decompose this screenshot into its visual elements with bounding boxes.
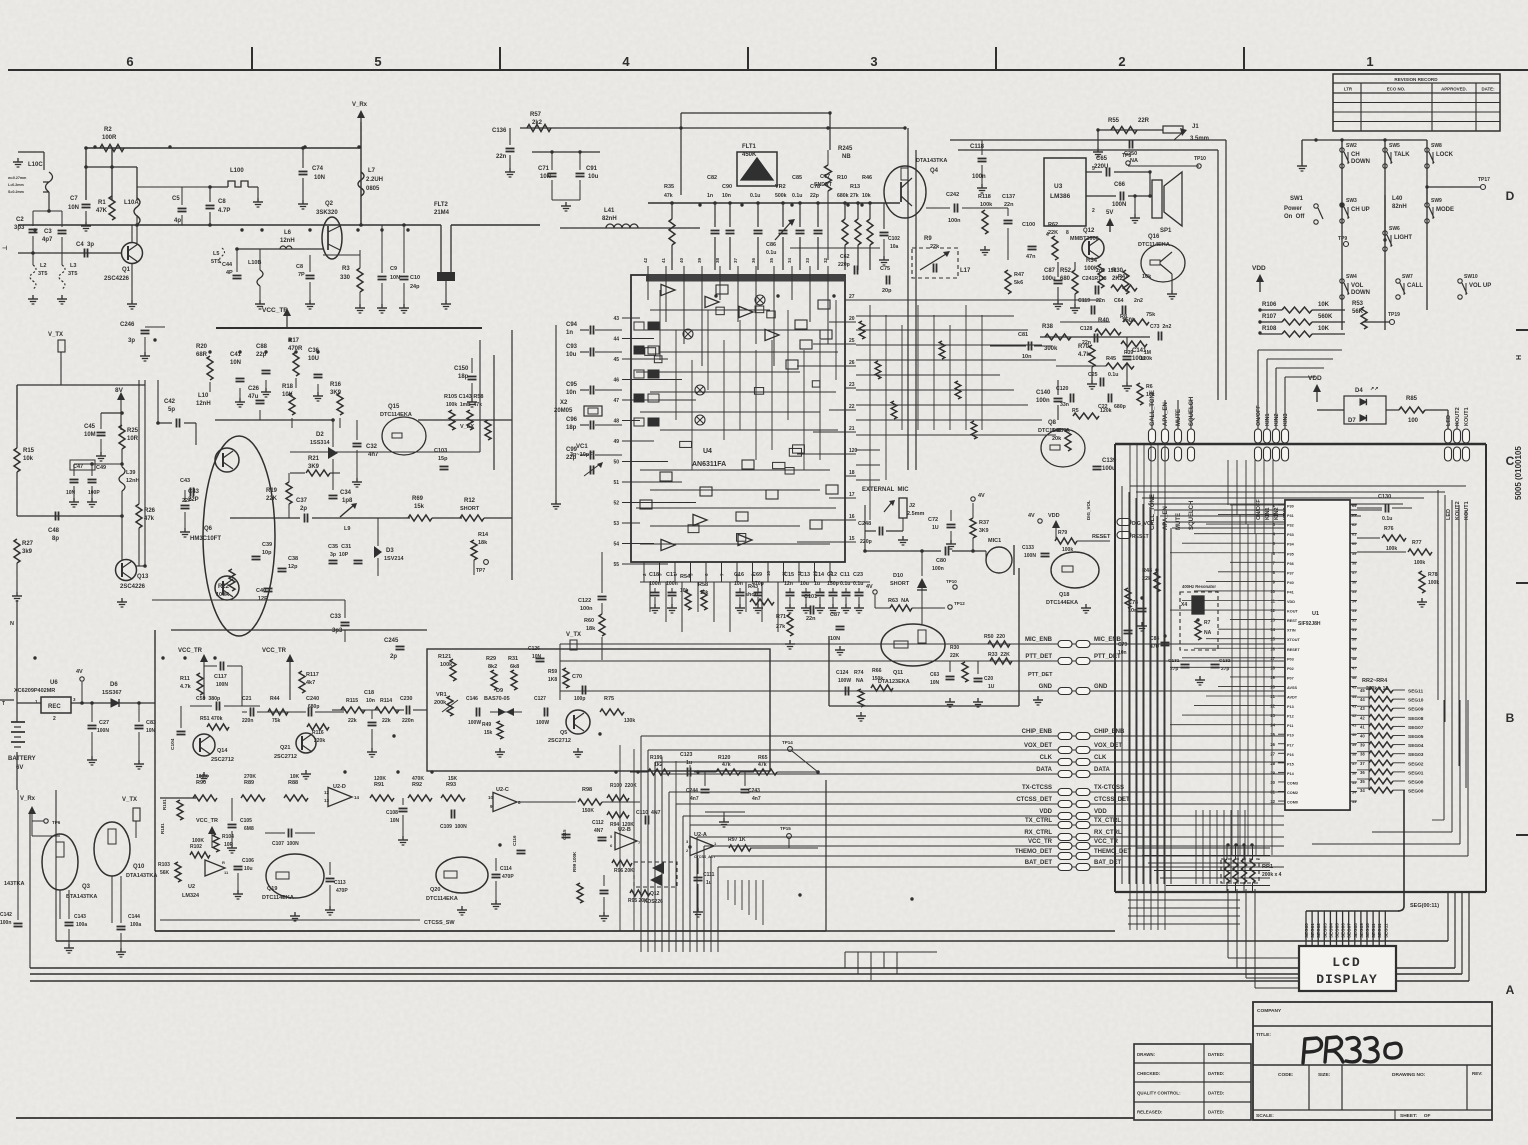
svg-text:100W: 100W <box>838 678 851 684</box>
svg-text:MIC_ENB: MIC_ENB <box>1025 637 1053 643</box>
svg-text:50: 50 <box>613 460 619 466</box>
svg-text:R54: R54 <box>680 574 691 580</box>
svg-text:R120: R120 <box>718 755 731 761</box>
svg-text:470P: 470P <box>336 888 348 894</box>
svg-text:12nH: 12nH <box>280 238 295 244</box>
svg-text:R78: R78 <box>1428 572 1438 578</box>
svg-text:TX-CTCSS: TX-CTCSS <box>1094 785 1124 791</box>
svg-text:C70: C70 <box>572 674 582 680</box>
svg-text:P16: P16 <box>1287 753 1294 757</box>
svg-text:VDD: VDD <box>1094 809 1107 815</box>
svg-text:Q3: Q3 <box>82 884 91 890</box>
svg-text:COM0: COM0 <box>1287 801 1298 805</box>
svg-text:42: 42 <box>643 257 648 263</box>
svg-text:C106: C106 <box>242 858 254 864</box>
svg-text:R3: R3 <box>342 266 350 272</box>
svg-text:R2: R2 <box>104 127 112 133</box>
svg-text:R98: R98 <box>582 787 592 793</box>
svg-text:100N: 100N <box>97 728 109 734</box>
svg-text:C101: C101 <box>804 594 817 600</box>
svg-text:3k9: 3k9 <box>22 549 33 555</box>
svg-text:MUTE: MUTE <box>1176 409 1182 426</box>
svg-text:R116: R116 <box>312 730 324 736</box>
svg-text:CHIP_ENB: CHIP_ENB <box>1022 729 1053 735</box>
svg-text:AN6311FA: AN6311FA <box>692 461 726 468</box>
svg-text:34: 34 <box>787 257 792 263</box>
svg-text:62: 62 <box>1352 523 1356 527</box>
svg-text:SEG00: SEG00 <box>1408 789 1424 795</box>
svg-text:C91: C91 <box>586 166 598 172</box>
svg-text:46: 46 <box>1352 676 1356 680</box>
svg-text:10k: 10k <box>862 193 871 199</box>
svg-text:SW7: SW7 <box>1402 274 1413 280</box>
svg-text:R91: R91 <box>374 782 384 788</box>
svg-text:38: 38 <box>1360 752 1365 757</box>
svg-text:X2: X2 <box>560 400 568 406</box>
svg-text:SW10: SW10 <box>1464 274 1478 280</box>
svg-text:C65: C65 <box>1096 156 1108 162</box>
svg-text:4V: 4V <box>866 584 873 590</box>
svg-text:Q1: Q1 <box>122 267 131 273</box>
svg-text:1p8: 1p8 <box>342 498 353 504</box>
svg-text:47k: 47k <box>758 762 767 768</box>
svg-text:XC6209P402MR: XC6209P402MR <box>14 688 55 694</box>
svg-text:R60: R60 <box>584 618 594 624</box>
svg-text:DRAWING NO:: DRAWING NO: <box>1392 1072 1426 1078</box>
svg-text:21: 21 <box>1270 694 1275 699</box>
svg-text:36: 36 <box>751 257 756 263</box>
svg-text:4n7: 4n7 <box>690 796 699 802</box>
svg-text:4P: 4P <box>226 270 233 276</box>
svg-text:2n2: 2n2 <box>1134 298 1143 304</box>
svg-text:CALL: CALL <box>1407 283 1423 289</box>
svg-text:C82: C82 <box>707 175 717 181</box>
svg-text:150p: 150p <box>827 581 839 587</box>
svg-text:3SK320: 3SK320 <box>316 210 338 216</box>
svg-text:R7: R7 <box>1204 620 1211 626</box>
svg-text:VC1: VC1 <box>576 444 588 450</box>
svg-text:220p: 220p <box>838 262 850 268</box>
svg-text:U2: U2 <box>188 884 195 890</box>
svg-text:C35 C31: C35 C31 <box>328 544 351 550</box>
svg-text:VCC_TR: VCC_TR <box>262 648 287 654</box>
svg-text:DTC144EKA: DTC144EKA <box>1046 600 1078 606</box>
svg-text:DISPLAY: DISPLAY <box>1316 972 1378 987</box>
svg-text:APA_EN: APA_EN <box>1163 402 1169 426</box>
svg-text:0.1u: 0.1u <box>853 581 863 587</box>
svg-text:R45: R45 <box>1106 356 1116 362</box>
svg-text:VCC_TR: VCC_TR <box>178 648 203 654</box>
svg-text:22k: 22k <box>930 244 940 250</box>
svg-text:C18: C18 <box>649 572 659 578</box>
svg-text:TALK: TALK <box>1394 152 1410 158</box>
svg-text:T: T <box>2 701 5 707</box>
svg-text:44: 44 <box>613 337 619 343</box>
svg-text:A: A <box>1506 983 1515 997</box>
svg-text:4k7: 4k7 <box>306 680 315 686</box>
svg-text:17: 17 <box>849 492 855 498</box>
svg-text:C87: C87 <box>830 612 840 618</box>
svg-text:VOL: VOL <box>1351 283 1364 289</box>
svg-text:R66: R66 <box>872 668 882 674</box>
svg-text:22K: 22K <box>266 496 278 502</box>
svg-text:51: 51 <box>1352 628 1356 632</box>
svg-text:470P: 470P <box>502 874 514 880</box>
svg-text:C59 380p: C59 380p <box>196 696 220 702</box>
svg-text:R51 470k: R51 470k <box>200 716 223 722</box>
svg-text:R88: R88 <box>288 780 298 786</box>
svg-text:100n: 100n <box>932 566 944 572</box>
svg-text:R100 220K: R100 220K <box>610 783 637 789</box>
svg-text:SEG06: SEG06 <box>1341 923 1346 938</box>
svg-text:R49: R49 <box>482 722 491 728</box>
svg-text:R74: R74 <box>854 670 864 676</box>
svg-text:CTCSS_DET: CTCSS_DET <box>1016 797 1052 803</box>
svg-text:R92: R92 <box>412 782 422 788</box>
svg-text:C244: C244 <box>686 788 698 794</box>
svg-text:R97 1K: R97 1K <box>728 837 746 843</box>
svg-text:100N: 100N <box>216 682 228 688</box>
svg-text:LCD: LCD <box>1332 955 1361 970</box>
svg-text:R76: R76 <box>1384 526 1394 532</box>
svg-text:THEMO_DET: THEMO_DET <box>1094 849 1131 855</box>
svg-text:VOL UP: VOL UP <box>1469 283 1491 289</box>
svg-text:SHORT: SHORT <box>460 506 480 512</box>
svg-text:SEG03: SEG03 <box>1408 752 1424 758</box>
svg-text:47K: 47K <box>96 208 108 214</box>
svg-text:59: 59 <box>1352 552 1356 556</box>
svg-text:18k: 18k <box>478 540 488 546</box>
svg-text:Q14: Q14 <box>217 748 228 754</box>
svg-text:R85: R85 <box>1406 396 1418 402</box>
svg-text:26: 26 <box>1270 742 1275 747</box>
svg-text:TP7: TP7 <box>476 568 485 574</box>
svg-text:C45: C45 <box>84 424 96 430</box>
svg-text:6V: 6V <box>16 765 23 771</box>
svg-text:60: 60 <box>1352 542 1356 546</box>
svg-text:R38: R38 <box>1042 324 1054 330</box>
svg-text:P36: P36 <box>1287 562 1294 566</box>
svg-text:R21: R21 <box>308 456 320 462</box>
svg-text:C146: C146 <box>466 696 478 702</box>
svg-text:C105: C105 <box>240 818 252 824</box>
svg-text:COMPANY: COMPANY <box>1257 1008 1282 1014</box>
svg-text:12n: 12n <box>784 581 793 587</box>
svg-text:CTCSS_DET: CTCSS_DET <box>1094 797 1130 803</box>
svg-text:24: 24 <box>1270 723 1275 728</box>
svg-text:↗↗: ↗↗ <box>1370 386 1378 392</box>
svg-text:100N: 100N <box>1112 202 1126 208</box>
svg-text:REST: REST <box>1287 619 1298 623</box>
svg-text:R14: R14 <box>478 532 489 538</box>
svg-text:19: 19 <box>1270 675 1275 680</box>
svg-text:R8: R8 <box>1120 314 1127 320</box>
svg-text:NA: NA <box>1130 158 1138 164</box>
svg-text:ON/OFF: ON/OFF <box>1256 405 1262 426</box>
svg-text:4.7k: 4.7k <box>180 684 192 690</box>
svg-text:2SC2712: 2SC2712 <box>548 738 571 744</box>
svg-text:SEG03: SEG03 <box>1322 923 1327 938</box>
svg-text:12p: 12p <box>288 564 298 570</box>
svg-text:22n: 22n <box>1082 340 1091 346</box>
svg-text:SW4: SW4 <box>1346 274 1357 280</box>
svg-text:APPROVED.: APPROVED. <box>1441 87 1467 92</box>
svg-text:300k: 300k <box>1044 346 1058 352</box>
svg-text:RX_CTRL: RX_CTRL <box>1094 830 1122 836</box>
svg-text:LED: LED <box>1446 415 1452 426</box>
svg-text:BTA143TKA: BTA143TKA <box>66 894 97 900</box>
svg-text:P17: P17 <box>1287 743 1294 747</box>
svg-text:C32: C32 <box>366 444 378 450</box>
svg-text:100k: 100k <box>1062 547 1073 553</box>
svg-text:TP10: TP10 <box>946 579 957 584</box>
svg-text:41: 41 <box>1360 724 1365 729</box>
svg-text:SNDRT: SNDRT <box>814 182 833 188</box>
svg-text:10n: 10n <box>734 581 743 587</box>
svg-text:C124: C124 <box>836 670 849 676</box>
svg-text:AVDT: AVDT <box>1287 696 1298 700</box>
svg-text:SW5: SW5 <box>1389 143 1400 149</box>
svg-text:R13: R13 <box>850 184 860 190</box>
svg-text:10k: 10k <box>1146 392 1155 398</box>
svg-text:20k: 20k <box>1052 436 1062 442</box>
svg-text:100n: 100n <box>1036 398 1050 404</box>
svg-text:C8: C8 <box>296 264 303 270</box>
svg-text:CODE:: CODE: <box>1278 1072 1294 1078</box>
svg-text:C66: C66 <box>1114 182 1126 188</box>
svg-text:C126: C126 <box>528 646 540 652</box>
svg-text:D2: D2 <box>316 432 324 438</box>
svg-text:1U: 1U <box>932 525 939 531</box>
svg-text:VCC_TR: VCC_TR <box>262 307 288 314</box>
svg-text:48: 48 <box>1352 657 1356 661</box>
svg-text:680p: 680p <box>308 704 319 710</box>
svg-text:B: B <box>1506 711 1515 725</box>
svg-text:C12: C12 <box>827 572 837 578</box>
svg-text:C15: C15 <box>784 572 794 578</box>
svg-text:SIF92J8H: SIF92J8H <box>1298 621 1321 627</box>
svg-text:D10: D10 <box>893 573 903 579</box>
svg-text:C21: C21 <box>242 696 252 702</box>
svg-text:16: 16 <box>849 514 855 520</box>
svg-text:Q8: Q8 <box>1048 420 1057 426</box>
svg-text:On Off: On Off <box>1284 214 1305 220</box>
svg-text:22n: 22n <box>1004 202 1014 208</box>
svg-text:45: 45 <box>1360 688 1365 693</box>
svg-text:0.1u: 0.1u <box>840 581 850 587</box>
svg-text:C44: C44 <box>222 262 233 268</box>
svg-text:TP19: TP19 <box>1388 312 1400 318</box>
svg-text:R31: R31 <box>508 656 518 662</box>
svg-text:17: 17 <box>1270 656 1275 661</box>
svg-text:15K: 15K <box>448 776 458 782</box>
svg-text:SEG04: SEG04 <box>1408 743 1424 749</box>
svg-text:SEG08: SEG08 <box>1353 923 1358 938</box>
svg-text:R: R <box>222 860 225 865</box>
svg-text:DTA123EKA: DTA123EKA <box>878 679 910 685</box>
svg-text:C93: C93 <box>566 344 578 350</box>
svg-text:10n: 10n <box>1118 650 1127 656</box>
svg-text:100k: 100k <box>1386 546 1397 552</box>
svg-text:C81: C81 <box>1018 332 1028 338</box>
svg-text:P37: P37 <box>1287 571 1294 575</box>
svg-text:QUALITY CONTROL:: QUALITY CONTROL: <box>1137 1090 1181 1095</box>
svg-text:35: 35 <box>769 257 774 263</box>
svg-text:2.2UH: 2.2UH <box>366 177 383 183</box>
svg-text:100: 100 <box>1408 418 1419 424</box>
svg-text:47u: 47u <box>248 394 259 400</box>
svg-text:H: H <box>1516 355 1523 360</box>
svg-text:5p: 5p <box>168 407 175 413</box>
svg-text:P31: P31 <box>1287 514 1294 518</box>
svg-text:R10: R10 <box>837 175 847 181</box>
svg-text:C80: C80 <box>936 558 946 564</box>
svg-text:RESET: RESET <box>1287 648 1300 652</box>
svg-text:R6: R6 <box>1146 384 1153 390</box>
svg-text:C102: C102 <box>888 236 900 242</box>
svg-text:33: 33 <box>1352 800 1356 804</box>
svg-text:120k: 120k <box>1140 356 1153 362</box>
svg-text:C5: C5 <box>172 196 180 202</box>
svg-text:4p: 4p <box>174 218 181 224</box>
svg-text:0.1u: 0.1u <box>750 193 760 199</box>
svg-text:⊣: ⊣ <box>2 245 7 252</box>
svg-text:P30: P30 <box>1287 505 1294 509</box>
svg-text:200k: 200k <box>434 700 447 706</box>
svg-text:120K: 120K <box>374 776 386 782</box>
svg-text:U1: U1 <box>1312 611 1319 617</box>
svg-text:49: 49 <box>613 439 619 445</box>
svg-text:3p~10pF: 3p~10pF <box>570 452 593 458</box>
svg-text:R37: R37 <box>979 520 989 526</box>
svg-text:100W: 100W <box>536 720 549 726</box>
svg-text:61: 61 <box>1352 533 1356 537</box>
svg-text:4N7: 4N7 <box>594 828 603 834</box>
svg-text:43: 43 <box>613 316 619 322</box>
svg-text:40: 40 <box>1352 733 1356 737</box>
svg-text:BATTERY: BATTERY <box>8 756 36 762</box>
svg-text:L10B: L10B <box>248 260 261 266</box>
svg-text:7P: 7P <box>298 272 305 278</box>
svg-text:SEG05: SEG05 <box>1335 923 1340 938</box>
svg-text:P02: P02 <box>1287 667 1294 671</box>
svg-text:35: 35 <box>1352 781 1356 785</box>
svg-text:R53: R53 <box>1352 301 1364 307</box>
svg-text:C14: C14 <box>814 572 825 578</box>
svg-text:SEG09: SEG09 <box>1408 707 1424 713</box>
svg-text:27k: 27k <box>850 193 859 199</box>
svg-text:R35: R35 <box>664 184 674 190</box>
svg-text:10k: 10k <box>700 590 709 596</box>
svg-text:R121: R121 <box>438 654 451 660</box>
svg-text:L40: L40 <box>1392 196 1403 202</box>
svg-text:SEG02: SEG02 <box>1408 761 1424 767</box>
svg-text:41: 41 <box>1352 724 1356 728</box>
svg-text:DTC114EKA: DTC114EKA <box>1138 242 1170 248</box>
svg-text:4V: 4V <box>978 493 985 499</box>
svg-text:R9: R9 <box>924 236 932 242</box>
svg-text:L3: L3 <box>70 263 76 269</box>
svg-text:100n: 100n <box>0 920 11 926</box>
svg-text:R1: R1 <box>98 200 106 206</box>
svg-text:220U: 220U <box>1094 164 1108 170</box>
svg-text:R30: R30 <box>950 645 959 651</box>
svg-text:P32: P32 <box>1287 524 1294 528</box>
svg-text:100k: 100k <box>440 662 453 668</box>
svg-text:20M05: 20M05 <box>554 408 573 414</box>
svg-text:R47: R47 <box>1014 272 1024 278</box>
svg-text:LIGHT: LIGHT <box>1394 235 1412 241</box>
svg-text:56K: 56K <box>1352 309 1364 315</box>
svg-text:37: 37 <box>1360 761 1365 766</box>
svg-text:THEMO_DET: THEMO_DET <box>1015 849 1052 855</box>
svg-text:DOWN: DOWN <box>1351 159 1370 165</box>
svg-text:R50 220: R50 220 <box>984 634 1005 640</box>
svg-text:5: 5 <box>374 54 381 69</box>
svg-text:R32: R32 <box>1052 428 1062 434</box>
svg-text:0.1u: 0.1u <box>1382 516 1392 522</box>
svg-text:Q11: Q11 <box>893 670 903 676</box>
svg-text:L39: L39 <box>126 470 135 476</box>
svg-text:C69: C69 <box>752 572 762 578</box>
svg-text:C23: C23 <box>853 572 863 578</box>
svg-text:VCC_TR: VCC_TR <box>1028 839 1053 845</box>
svg-text:40: 40 <box>679 257 684 263</box>
svg-text:Q19: Q19 <box>267 886 277 892</box>
svg-text:R77: R77 <box>1412 540 1422 546</box>
svg-text:KIN2: KIN2 <box>1274 413 1280 426</box>
svg-text:2p: 2p <box>300 506 307 512</box>
svg-text:18: 18 <box>1270 665 1275 670</box>
svg-text:C33: C33 <box>330 614 342 620</box>
svg-text:5005 (0100105: 5005 (0100105 <box>1514 446 1523 500</box>
svg-text:2n2 15k: 2n2 15k <box>1096 268 1117 274</box>
svg-text:C48: C48 <box>48 528 60 534</box>
svg-text:KOUT2: KOUT2 <box>1455 501 1461 520</box>
svg-text:C96: C96 <box>566 417 578 423</box>
svg-text:TP12: TP12 <box>954 601 965 606</box>
svg-text:82nH: 82nH <box>1392 204 1407 210</box>
svg-text:VR1: VR1 <box>436 692 447 698</box>
svg-text:100n: 100n <box>948 218 961 224</box>
svg-text:21M4: 21M4 <box>434 210 450 216</box>
svg-text:short: short <box>745 592 759 598</box>
svg-text:V_TX: V_TX <box>566 632 581 638</box>
svg-text:2k2: 2k2 <box>532 120 543 126</box>
svg-text:Q15: Q15 <box>388 404 400 410</box>
svg-text:L2: L2 <box>40 263 46 269</box>
svg-text:45: 45 <box>613 357 619 363</box>
svg-text:C11: C11 <box>840 572 850 578</box>
svg-text:SEG07: SEG07 <box>1347 923 1352 938</box>
svg-text:COM2: COM2 <box>1287 791 1298 795</box>
svg-text:100N: 100N <box>1024 553 1036 559</box>
svg-text:R118: R118 <box>978 194 991 200</box>
svg-text:23: 23 <box>1270 713 1275 718</box>
svg-text:D: D <box>1506 189 1515 203</box>
svg-text:143TKA: 143TKA <box>4 881 25 887</box>
svg-text:10u: 10u <box>588 174 599 180</box>
svg-text:14: 14 <box>354 795 360 800</box>
svg-text:D7: D7 <box>1348 418 1356 424</box>
svg-text:42: 42 <box>1352 714 1356 718</box>
svg-text:C7: C7 <box>70 196 78 202</box>
svg-text:XTOUT: XTOUT <box>1287 638 1300 642</box>
svg-text:C133: C133 <box>1022 545 1034 551</box>
svg-text:22n: 22n <box>496 154 507 160</box>
svg-text:C8: C8 <box>218 199 226 205</box>
svg-text:Q16: Q16 <box>1148 234 1160 240</box>
